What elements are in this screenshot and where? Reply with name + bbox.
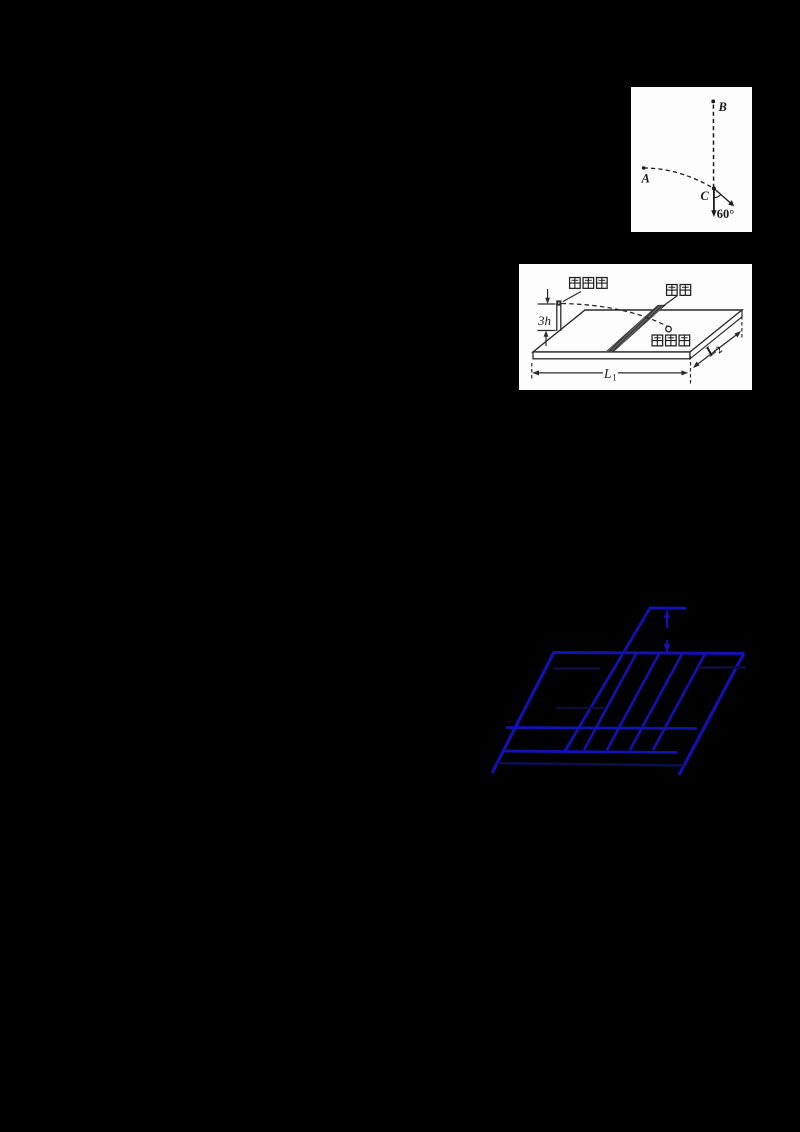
table top surface bbox=[533, 310, 742, 352]
point C bbox=[712, 186, 716, 190]
launcher pole (double line) bbox=[556, 304, 558, 331]
table front face bbox=[533, 352, 690, 359]
angle arc at C bbox=[714, 195, 721, 198]
label 乒乓球 bbox=[652, 335, 690, 346]
ghost inner rear line left (dim) bbox=[553, 667, 600, 669]
velocity arrow 60deg from C bbox=[714, 188, 731, 203]
net hatch diagonal 2 bbox=[607, 654, 659, 750]
net top edge bbox=[649, 607, 687, 610]
svg-text:1: 1 bbox=[612, 373, 617, 383]
label 球网 bbox=[667, 285, 691, 296]
net height dimension arrow down bbox=[666, 640, 668, 652]
pointer line from 球网 to net bbox=[663, 296, 678, 307]
net hatch diagonal 4 bbox=[653, 654, 705, 750]
L1 left dashed extension bbox=[531, 363, 533, 379]
net hatch diagonal 3 bbox=[630, 654, 682, 750]
horizontal dimension line upper bbox=[506, 728, 697, 729]
ghost inner rear line right (dim) bbox=[698, 666, 746, 668]
3h bottom tick bbox=[538, 330, 556, 332]
figure 1: projectile A-B-C diagram (white panel) bbox=[631, 87, 752, 232]
launch point dot bbox=[556, 300, 561, 305]
label 发射点 bbox=[570, 278, 608, 289]
L2 dimension arrow bbox=[695, 333, 740, 367]
table right side face bbox=[690, 310, 742, 359]
svg-text:60°: 60° bbox=[717, 207, 735, 221]
velocity arrow down from C bbox=[713, 188, 715, 212]
net hatch diagonal 1 bbox=[584, 654, 636, 750]
label L2 bbox=[702, 339, 725, 362]
svg-text:L: L bbox=[603, 366, 612, 381]
net hatched band bbox=[606, 305, 666, 352]
dashed vertical wire B to C bbox=[712, 105, 714, 189]
table front edge (dim) bbox=[497, 763, 684, 766]
3h top tick bbox=[538, 303, 556, 305]
ghost line mid (dim) bbox=[556, 707, 604, 709]
ping-pong ball bbox=[666, 326, 672, 332]
L1 right dashed extension bbox=[690, 356, 692, 384]
3h top arrow (down) bbox=[547, 289, 549, 301]
table rear edge bbox=[553, 653, 745, 654]
svg-text:B: B bbox=[718, 100, 727, 114]
net left edge diagonal bbox=[565, 608, 650, 751]
svg-text:A: A bbox=[641, 172, 650, 186]
pointer line from 发射点 to launch point bbox=[563, 292, 581, 302]
point A bbox=[642, 166, 645, 169]
net height dimension arrow up bbox=[666, 610, 668, 628]
3h bottom arrow (up) bbox=[545, 334, 547, 347]
dashed trajectory over net to ball bbox=[562, 304, 668, 327]
point B bbox=[711, 100, 715, 104]
table right edge bbox=[679, 654, 744, 775]
figure 3: blue table-tennis table perspective drawing bbox=[480, 595, 760, 780]
figure 2: ping-pong table launcher diagram (white panel) bbox=[519, 264, 752, 390]
svg-text:3h: 3h bbox=[537, 313, 551, 328]
L2 top dashed extension bbox=[741, 316, 743, 340]
L1 dimension line with arrows bbox=[535, 372, 603, 374]
svg-text:C: C bbox=[701, 189, 710, 203]
table left edge bbox=[492, 653, 554, 773]
dashed trajectory curve A to C bbox=[644, 168, 714, 188]
horizontal dimension line lower bbox=[502, 751, 678, 753]
